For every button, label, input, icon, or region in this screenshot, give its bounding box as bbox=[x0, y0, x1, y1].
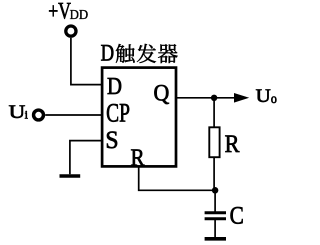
wire VDD terminal to D pin bbox=[71, 38, 102, 85]
ground symbol below capacitor bbox=[205, 237, 226, 241]
svg-text:+V: +V bbox=[48, 0, 71, 25]
resistor R body bbox=[209, 127, 219, 157]
svg-text:D: D bbox=[101, 41, 115, 67]
wire capacitor to ground bbox=[214, 219, 216, 237]
arrowhead of Uo output bbox=[234, 93, 249, 103]
node junction dot at Q output bbox=[211, 95, 217, 101]
ground symbol at S pin bbox=[60, 174, 81, 178]
capacitor C bottom plate bbox=[205, 217, 226, 220]
svg-text:D: D bbox=[107, 74, 122, 100]
D flip-flop U1 box bbox=[102, 68, 176, 167]
svg-text:U: U bbox=[256, 86, 271, 107]
wire Ui terminal to CP pin bbox=[45, 114, 102, 116]
wire Q output to Uo arrow bbox=[176, 97, 236, 99]
svg-text:CP: CP bbox=[106, 99, 130, 128]
wire S pin to ground bbox=[70, 141, 102, 175]
svg-text:Q: Q bbox=[154, 81, 170, 106]
wire resistor bottom to RC node bbox=[213, 157, 215, 190]
svg-text:S: S bbox=[105, 125, 118, 154]
node junction dot at R/C net bbox=[212, 187, 219, 194]
title char 器 bbox=[158, 44, 177, 63]
svg-text:o: o bbox=[271, 92, 277, 107]
svg-text:U: U bbox=[9, 102, 26, 123]
title char 触 bbox=[116, 44, 135, 63]
title char 发 bbox=[137, 44, 156, 63]
svg-text:R: R bbox=[225, 131, 240, 158]
wire R pin of box down to RC node bbox=[139, 166, 215, 190]
svg-text:C: C bbox=[230, 203, 244, 230]
capacitor C top plate bbox=[205, 211, 226, 214]
svg-text:R: R bbox=[131, 145, 146, 172]
wire node to resistor top bbox=[213, 98, 215, 128]
svg-text:DD: DD bbox=[70, 7, 89, 22]
power terminal +VDD circle bbox=[66, 26, 76, 36]
input terminal Ui circle bbox=[34, 110, 44, 120]
wire RC node down to capacitor bbox=[214, 190, 216, 213]
